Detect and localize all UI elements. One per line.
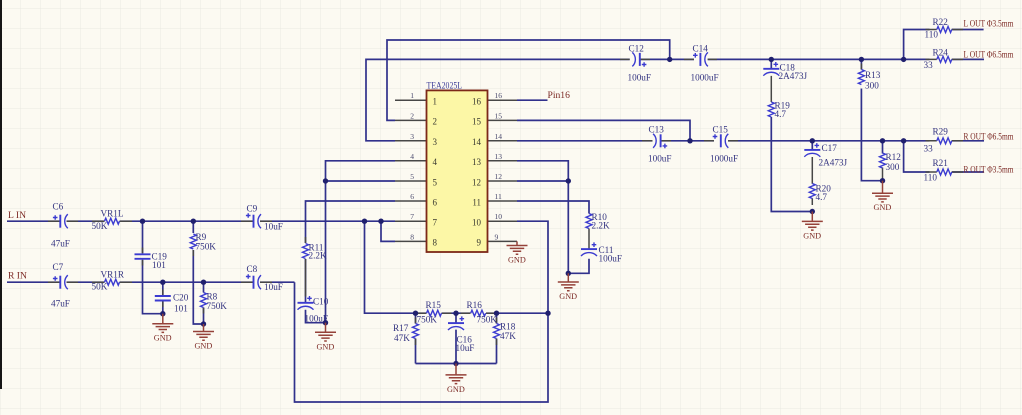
svg-text:R15: R15: [426, 300, 442, 310]
capacitor C8 10uF: [253, 276, 255, 289]
svg-text:4: 4: [410, 152, 414, 161]
svg-text:C20: C20: [173, 293, 189, 303]
ground stem C20: [162, 314, 164, 324]
resistor R19 4.7: [768, 102, 774, 117]
svg-text:C9: C9: [247, 204, 258, 214]
svg-text:8: 8: [433, 238, 438, 248]
svg-text:R OUT Φ3.5mm: R OUT Φ3.5mm: [964, 165, 1014, 176]
svg-text:2.2K: 2.2K: [309, 251, 327, 261]
wire pin16 out: [517, 99, 548, 101]
svg-text:750K: 750K: [207, 301, 228, 311]
wire C17 top: [811, 141, 813, 150]
resistor R10 2.2K: [586, 214, 592, 229]
svg-text:11: 11: [472, 197, 481, 207]
ground stem C16: [455, 364, 457, 375]
wire VR1L to C9: [120, 220, 254, 222]
svg-text:110: 110: [924, 173, 938, 183]
svg-text:11: 11: [495, 192, 503, 201]
wire R19 bottom to R20 gnd junction: [771, 117, 812, 212]
svg-text:7: 7: [433, 218, 438, 228]
capacitor C18 2A473J: [763, 68, 779, 70]
svg-text:C10: C10: [313, 297, 329, 307]
svg-text:C12: C12: [629, 44, 645, 54]
svg-text:2.2K: 2.2K: [592, 221, 610, 231]
wire pin4 riser: [326, 161, 396, 323]
wire R21 branch riser: [904, 141, 930, 172]
svg-text:8: 8: [410, 232, 414, 241]
ground stem R8: [203, 324, 205, 331]
ground C20: [152, 324, 173, 343]
capacitor C12 100uF: [639, 53, 641, 66]
ground stem C11/pin13: [567, 273, 569, 281]
wire VR1R to C8: [120, 281, 254, 283]
capacitor C14 1000uF: [699, 53, 701, 66]
capacitor C10 100uF: [298, 302, 314, 304]
svg-text:5: 5: [433, 177, 438, 187]
svg-text:VR1L: VR1L: [101, 209, 124, 219]
wire C15 to C17/R12/branch: [728, 140, 929, 142]
svg-text:C17: C17: [822, 143, 838, 153]
svg-text:R9: R9: [196, 232, 207, 242]
wire R8 bottom: [203, 308, 205, 325]
junction node C10 gnd: [323, 320, 328, 325]
junction node R9 tap: [191, 219, 196, 224]
wire bus R16 to pin10 riser: [486, 312, 548, 314]
svg-text:47K: 47K: [394, 333, 410, 343]
junction node R19/R20 gnd: [810, 209, 815, 214]
svg-text:10uF: 10uF: [264, 222, 283, 232]
svg-text:110: 110: [925, 30, 939, 40]
ground R12: [872, 193, 893, 212]
junction node C18 top: [769, 57, 774, 62]
svg-text:R12: R12: [886, 152, 902, 162]
svg-text:750K: 750K: [417, 315, 438, 325]
dark leads vertical chains: [143, 64, 883, 346]
ground stem R12/R13: [882, 181, 884, 193]
junction node C19/C20 gnd: [160, 311, 165, 316]
svg-text:C14: C14: [693, 44, 709, 54]
svg-text:1: 1: [410, 91, 414, 100]
wire pin13 riser down to gnd junction: [517, 161, 568, 273]
junction node R13 top: [859, 57, 864, 62]
dark component leads on R row: [48, 281, 272, 283]
wire R8 branch down: [203, 282, 205, 292]
svg-text:10: 10: [472, 218, 482, 228]
svg-text:7: 7: [410, 212, 414, 221]
svg-text:100uF: 100uF: [599, 254, 623, 264]
wire R29 out: [952, 140, 984, 142]
svg-text:15: 15: [495, 111, 503, 120]
svg-text:C6: C6: [53, 202, 64, 212]
resistor R15 750K: [427, 310, 442, 316]
junction node R9/R8 gnd: [201, 321, 206, 326]
svg-text:13: 13: [472, 157, 482, 167]
wire C8 corner down to bottom bus to pin10 riser: [295, 221, 549, 402]
wire R24 out: [952, 58, 984, 60]
svg-text:750K: 750K: [477, 315, 498, 325]
svg-text:101: 101: [152, 260, 166, 270]
wire C10 bottom to gnd junction: [306, 310, 326, 323]
svg-text:VR1R: VR1R: [101, 270, 125, 280]
wire R18 down: [496, 313, 498, 363]
dark leads R22 R24 R29 R21: [926, 30, 964, 173]
svg-text:L OUT Φ3.5mm: L OUT Φ3.5mm: [964, 19, 1014, 30]
wire C13 to junction: [661, 140, 714, 142]
resistor R18 47K: [494, 324, 500, 339]
wire L IN row to C6: [7, 220, 60, 222]
wire R12 top: [882, 141, 884, 154]
wire C19 bottom to C20 gnd junction: [143, 260, 163, 314]
svg-text:L IN: L IN: [8, 210, 26, 221]
svg-text:R18: R18: [500, 322, 516, 332]
capacitor C9 10uF: [253, 215, 255, 228]
svg-text:1: 1: [433, 97, 438, 107]
wire C8 to corner: [260, 281, 295, 283]
svg-text:4.7: 4.7: [816, 192, 828, 202]
resistor R29 33: [937, 138, 952, 144]
wire R17 down: [415, 313, 417, 363]
junction node R29/R21 branch: [901, 138, 906, 143]
capacitor C15 1000uF: [720, 134, 722, 147]
junction node C19 tap: [140, 219, 145, 224]
ground stem pin9: [516, 241, 518, 245]
svg-text:300: 300: [886, 162, 900, 172]
svg-text:1000uF: 1000uF: [691, 73, 719, 83]
junction node pin5 riser: [323, 178, 328, 183]
svg-text:C7: C7: [53, 262, 64, 272]
svg-text:C13: C13: [649, 125, 665, 135]
resistor R17 47K: [413, 324, 419, 339]
svg-text:750K: 750K: [196, 242, 217, 252]
wire R13 top: [860, 59, 862, 69]
wire C16 down: [455, 313, 457, 363]
svg-text:33: 33: [924, 60, 934, 70]
ground stem R19/R20: [811, 212, 813, 221]
svg-text:Pin16: Pin16: [548, 90, 571, 101]
svg-text:14: 14: [472, 137, 482, 147]
resistor R20 4.7: [809, 184, 815, 199]
svg-text:2: 2: [410, 111, 414, 120]
svg-text:5: 5: [410, 172, 414, 181]
wire R11 to C10: [305, 259, 307, 302]
svg-text:10: 10: [495, 212, 503, 221]
junction node pin8 riser on L row: [378, 219, 383, 224]
svg-text:16: 16: [472, 97, 482, 107]
ground R20: [802, 221, 823, 240]
wire C9 to pin7: [260, 220, 395, 222]
svg-text:C8: C8: [247, 264, 258, 274]
capacitor C19 101: [135, 254, 151, 258]
svg-text:13: 13: [495, 152, 503, 161]
dark leads C12 C14 C13 C15 row: [620, 59, 738, 140]
svg-text:47K: 47K: [500, 331, 516, 341]
svg-text:47uF: 47uF: [51, 299, 70, 309]
wire C19 branch down: [142, 221, 144, 253]
wire C14 to C18/R13/branch: [708, 58, 930, 60]
wire pin2 riser to C12/C14 junction: [387, 40, 670, 120]
svg-text:R16: R16: [467, 300, 483, 310]
ground C16: [446, 375, 467, 394]
wire R22 branch riser: [904, 30, 930, 60]
wire C11 bottom to gnd junction: [568, 259, 589, 274]
svg-text:2A473J: 2A473J: [819, 158, 848, 168]
svg-text:L OUT Φ6.5mm: L OUT Φ6.5mm: [964, 50, 1014, 61]
svg-text:14: 14: [495, 132, 503, 141]
svg-text:R IN: R IN: [8, 271, 27, 282]
resistor R9 750K: [190, 234, 196, 249]
svg-text:R22: R22: [933, 17, 949, 27]
resistor R24 33: [937, 56, 952, 62]
capacitor C11 100uF: [581, 248, 597, 250]
wire R9 bottom to R8 gnd junction: [193, 250, 203, 324]
ground C11: [558, 282, 579, 301]
wire pin15 riser to C13/C15 junction: [517, 120, 690, 140]
junction node R17 top: [413, 311, 418, 316]
wire pin3 riser to C12: [366, 59, 630, 140]
ground pin9: [507, 246, 528, 265]
capacitor C13 100uF: [660, 134, 662, 147]
sheet border left edge: [0, 0, 2, 389]
wire pin11 to R10: [517, 201, 589, 214]
svg-text:R24: R24: [933, 48, 949, 58]
wire C20 bottom: [162, 302, 164, 314]
svg-text:4.7: 4.7: [775, 109, 787, 119]
svg-text:6: 6: [433, 197, 438, 207]
junction node C11/pin13 gnd: [566, 271, 571, 276]
resistor R12 300: [880, 153, 886, 168]
svg-text:50K: 50K: [92, 282, 108, 292]
wire pin12 stub: [517, 180, 568, 182]
ground stem C10: [325, 323, 327, 332]
svg-text:R13: R13: [865, 70, 881, 80]
wire C20 branch down: [162, 282, 164, 295]
svg-text:3: 3: [433, 137, 438, 147]
wire bus riser from L row: [365, 221, 427, 313]
IC U1 pin leads left (pins 1-8): [395, 100, 427, 241]
svg-text:15: 15: [472, 117, 482, 127]
svg-text:100uF: 100uF: [628, 73, 652, 83]
svg-text:12: 12: [495, 172, 503, 181]
resistor R22 110: [937, 27, 952, 33]
svg-text:2: 2: [433, 117, 438, 127]
resistor VR1L 50K: [105, 218, 120, 224]
svg-text:9: 9: [495, 232, 499, 241]
resistor R11 2.2K: [303, 244, 309, 259]
resistor VR1R 50K: [105, 279, 120, 285]
svg-text:10uF: 10uF: [456, 343, 475, 353]
wire pin8 riser: [381, 221, 395, 241]
wire pin5 stub: [326, 180, 396, 182]
svg-text:50K: 50K: [92, 221, 108, 231]
svg-text:2A473J: 2A473J: [779, 71, 808, 81]
svg-text:C15: C15: [713, 125, 729, 135]
svg-text:100uF: 100uF: [648, 154, 672, 164]
junction node R18 top: [494, 311, 499, 316]
junction node C16 bottom: [453, 361, 458, 366]
capacitor C20 101: [155, 296, 171, 301]
IC U1 pin leads right (pins 16-9): [488, 100, 518, 241]
resistor R8 750K: [201, 293, 207, 308]
svg-text:300: 300: [865, 81, 879, 91]
svg-text:TEA2025L: TEA2025L: [427, 82, 463, 92]
svg-text:33: 33: [924, 144, 934, 154]
resistor R13 300: [858, 70, 864, 85]
svg-text:R29: R29: [933, 127, 949, 137]
capacitor C16 10uF: [448, 322, 464, 324]
wire R9 branch down: [192, 221, 194, 233]
capacitor C6 47uF: [59, 215, 61, 228]
capacitor C17 2A473J: [804, 149, 820, 151]
svg-text:R8: R8: [207, 292, 218, 302]
junction node C12/C14: [667, 57, 672, 62]
junction node C20 tap: [160, 280, 165, 285]
IC U1 TEA2025L body: [427, 90, 488, 252]
wire R21 out: [952, 171, 984, 173]
svg-text:R OUT Φ6.5mm: R OUT Φ6.5mm: [964, 132, 1014, 143]
svg-text:6: 6: [410, 192, 414, 201]
svg-text:12: 12: [472, 177, 481, 187]
svg-text:16: 16: [495, 91, 503, 100]
svg-text:1000uF: 1000uF: [710, 154, 738, 164]
junction node bus riser on L row: [362, 219, 367, 224]
junction node C16 top: [453, 311, 458, 316]
wire R22 out: [952, 29, 984, 31]
svg-text:101: 101: [174, 304, 188, 314]
svg-text:3: 3: [410, 132, 414, 141]
svg-text:R17: R17: [393, 323, 409, 333]
junction node bus/pin10 riser: [545, 311, 550, 316]
svg-text:10uF: 10uF: [264, 282, 283, 292]
dark leads R15 R16 on bus: [416, 312, 498, 314]
wire pin6 to R11: [306, 201, 396, 243]
svg-text:4: 4: [433, 157, 438, 167]
wire C18 top: [770, 59, 772, 68]
svg-text:R21: R21: [933, 158, 949, 168]
wire R13 bottom to R12 gnd junction: [861, 89, 882, 181]
junction node R12 top: [880, 138, 885, 143]
wire R IN row to C7: [7, 281, 60, 283]
resistor R16 750K: [471, 310, 486, 316]
ground R8: [193, 332, 214, 351]
dark component leads on L row: [48, 220, 272, 222]
capacitor C7 47uF: [59, 276, 61, 289]
junction node R13/R12 gnd: [880, 178, 885, 183]
resistor R21 110: [937, 169, 952, 175]
wire bus R15-R16: [442, 312, 471, 314]
wire R17-C16-R18 bottom: [416, 363, 497, 365]
junction node C13/C15: [687, 138, 692, 143]
ground C10: [315, 332, 336, 351]
junction node R8 tap: [201, 280, 206, 285]
junction node pin12 riser: [566, 178, 571, 183]
svg-text:9: 9: [477, 238, 482, 248]
junction node R22/R24 branch: [901, 57, 906, 62]
wire pin14 to C13: [517, 140, 653, 142]
junction node C17 top: [810, 138, 815, 143]
wire C6 to VR1L: [67, 220, 105, 222]
svg-text:47uF: 47uF: [51, 239, 70, 249]
wire C12 to junction: [640, 58, 694, 60]
wire C7 to VR1R: [67, 281, 105, 283]
